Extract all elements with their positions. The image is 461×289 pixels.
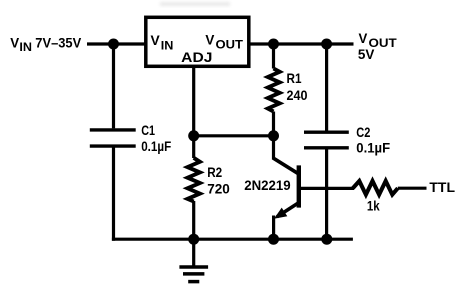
svg-text:C1: C1 (141, 122, 155, 138)
svg-text:TTL: TTL (429, 179, 455, 195)
svg-text:240: 240 (287, 87, 308, 103)
svg-text:V: V (359, 30, 368, 46)
svg-text:7V–35V: 7V–35V (35, 36, 81, 51)
svg-text:IN: IN (161, 40, 174, 52)
svg-text:5V: 5V (358, 46, 375, 62)
svg-text:720: 720 (207, 180, 230, 196)
svg-text:0.1µF: 0.1µF (141, 138, 171, 154)
svg-text:2N2219: 2N2219 (244, 177, 291, 193)
svg-text:V: V (151, 32, 161, 48)
svg-text:ADJ: ADJ (181, 50, 212, 65)
svg-text:V: V (10, 35, 20, 51)
svg-text:0.1µF: 0.1µF (356, 139, 390, 155)
svg-text:V: V (205, 31, 215, 47)
svg-text:IN: IN (19, 42, 32, 54)
svg-text:R2: R2 (207, 164, 222, 180)
svg-text:1k: 1k (367, 198, 380, 214)
svg-text:C2: C2 (356, 124, 370, 140)
svg-text:R1: R1 (287, 70, 302, 86)
svg-text:OUT: OUT (216, 39, 244, 51)
